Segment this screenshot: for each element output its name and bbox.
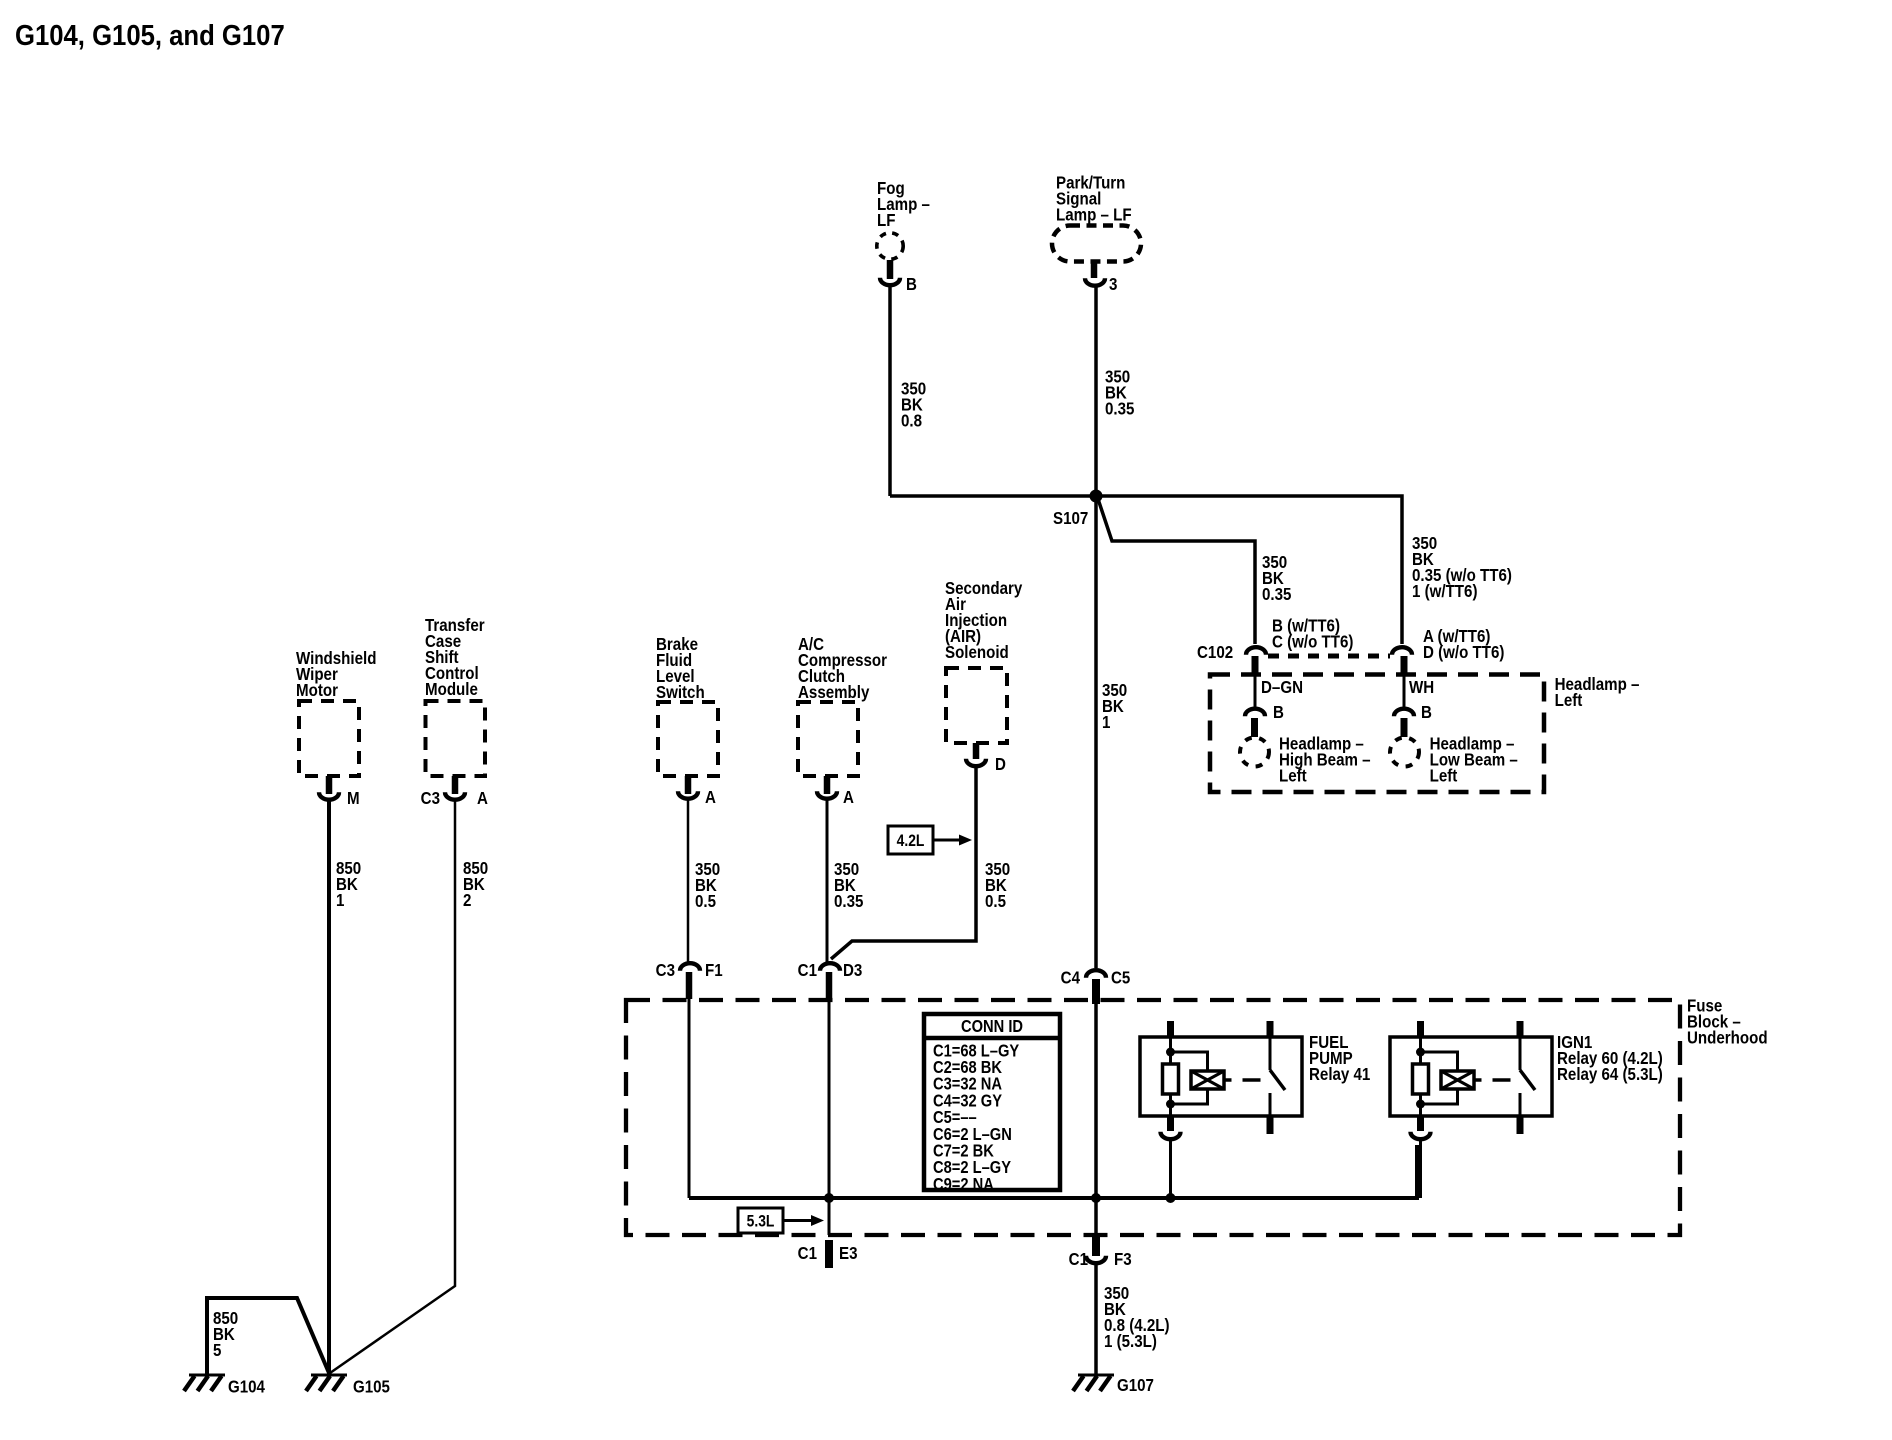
fog lamp label xyxy=(877,178,930,231)
svg-text:G104: G104 xyxy=(228,1376,266,1397)
wire fog lamp to S107 xyxy=(890,494,1096,498)
relay IGN1 label xyxy=(1557,1032,1663,1085)
connector B low beam xyxy=(1394,709,1414,716)
connector C4-C5 xyxy=(1086,970,1106,977)
air solenoid pin D xyxy=(973,743,980,759)
wire label 350 BK 1 xyxy=(1102,680,1127,733)
pin C5 xyxy=(1092,979,1100,1004)
pin label D3 xyxy=(843,960,862,981)
park/turn signal lamp label xyxy=(1056,172,1132,225)
svg-text:C9=2 NA: C9=2 NA xyxy=(933,1175,994,1194)
ground label G107 xyxy=(1117,1375,1154,1396)
park/turn signal lamp LF symbol xyxy=(1052,226,1141,262)
pin label C5 xyxy=(1111,967,1130,988)
wire 350 BK 0.35 a/c xyxy=(826,801,829,965)
connector B high beam xyxy=(1245,709,1265,716)
pin C102 left xyxy=(1252,656,1259,675)
svg-text:D: D xyxy=(995,754,1006,775)
connector cup A a/c xyxy=(817,791,837,799)
relay FUEL PUMP Relay 41 xyxy=(1140,1021,1302,1134)
fog lamp LF bulb xyxy=(877,233,903,259)
pin low beam xyxy=(1401,718,1408,737)
connector cup A brake xyxy=(678,791,698,799)
connector C3-F1 xyxy=(680,963,700,970)
relay IGN1 output connector xyxy=(1411,1132,1431,1140)
connector C102 right half xyxy=(1392,647,1412,654)
headlamp low beam label xyxy=(1430,733,1518,786)
connector cup B fog lamp xyxy=(880,278,900,286)
wire D-GN xyxy=(1254,675,1257,707)
wire F1 to ground bus xyxy=(688,999,691,1198)
park/turn lamp pin 3 xyxy=(1091,261,1098,278)
ground G105 xyxy=(306,1375,347,1391)
svg-text:A: A xyxy=(477,788,488,809)
connector cup 3 park/turn xyxy=(1085,278,1105,286)
wire fog lamp 350 BK 0.8 xyxy=(888,287,892,496)
svg-text:D3: D3 xyxy=(843,960,862,981)
ground label G104 xyxy=(228,1376,266,1397)
headlamp assembly label xyxy=(1555,674,1640,711)
svg-text:S107: S107 xyxy=(1053,508,1088,529)
relay FUEL PUMP Relay 41 label xyxy=(1309,1032,1370,1085)
wire label 850 BK 2 xyxy=(463,858,488,911)
pin label A a/c xyxy=(843,787,854,808)
pin label F1 xyxy=(705,960,723,981)
svg-text:F1: F1 xyxy=(705,960,723,981)
ground label G105 xyxy=(353,1376,390,1397)
splice label S107 xyxy=(1053,508,1088,529)
svg-text:3: 3 xyxy=(1109,274,1117,295)
air solenoid box xyxy=(946,668,1007,743)
title G104, G105, and G107 xyxy=(15,19,285,52)
wiper pin M xyxy=(326,776,333,794)
svg-text:M: M xyxy=(347,788,360,809)
pin label B high beam xyxy=(1273,702,1284,723)
wire S107 to left headlamp drop xyxy=(1098,499,1255,644)
wire 350 BK to G107 xyxy=(1094,1265,1098,1375)
connector cup D air xyxy=(966,759,986,767)
pin label B low beam xyxy=(1421,702,1432,723)
pin E3 xyxy=(825,1240,833,1268)
transfer case pin A xyxy=(452,776,459,794)
pin D3 xyxy=(826,972,833,999)
svg-text:B: B xyxy=(906,274,917,295)
wire 850 BK 5 xyxy=(207,1298,329,1374)
wire label 850 BK 1 xyxy=(336,858,361,911)
pin label B xyxy=(906,274,917,295)
fuse block label xyxy=(1687,995,1768,1048)
ground G104 xyxy=(184,1375,225,1391)
ground G107 xyxy=(1073,1375,1114,1391)
transfer case module label xyxy=(425,615,485,700)
pin label F3 xyxy=(1114,1249,1132,1270)
svg-text:G104, G105, and G107: G104, G105, and G107 xyxy=(15,19,285,52)
pin F1 xyxy=(686,972,693,999)
wire label 350 BK 0.5 brake xyxy=(695,859,720,912)
svg-text:C1: C1 xyxy=(798,960,817,981)
wire label 350 BK 0.35 left drop xyxy=(1262,552,1291,605)
junction C5 wire / bus xyxy=(1091,1193,1101,1203)
svg-text:E3: E3 xyxy=(839,1243,857,1264)
svg-text:C4: C4 xyxy=(1061,967,1081,988)
svg-text:B: B xyxy=(1421,702,1432,723)
connector cup F3 xyxy=(1086,1256,1106,1264)
pin high beam xyxy=(1251,718,1258,737)
wire label D-GN xyxy=(1261,677,1303,698)
connector label C4 xyxy=(1061,967,1081,988)
svg-text:WH: WH xyxy=(1409,677,1434,698)
relay IGN1 xyxy=(1390,1021,1552,1134)
svg-text:C1: C1 xyxy=(798,1243,817,1264)
callout 4.2L xyxy=(888,826,972,854)
svg-text:CONN ID: CONN ID xyxy=(961,1017,1023,1036)
windshield wiper motor label xyxy=(296,648,376,701)
windshield wiper motor box xyxy=(299,701,359,776)
connector label C102 xyxy=(1197,642,1233,663)
svg-text:B: B xyxy=(1273,702,1284,723)
brake switch pin A xyxy=(685,776,692,794)
pin label B/C left xyxy=(1272,615,1353,652)
pin label A brake xyxy=(705,787,716,808)
pin label A/D right xyxy=(1423,626,1504,663)
wire D3 through fuse block xyxy=(828,999,831,1235)
wire label 350 BK 0.8/1 xyxy=(1104,1283,1170,1352)
connector label C1 fuse xyxy=(798,960,817,981)
CONN ID table xyxy=(924,1014,1060,1194)
connector C1-D3 xyxy=(820,963,840,970)
pin label D air xyxy=(995,754,1006,775)
svg-text:4.2L: 4.2L xyxy=(897,832,925,850)
svg-text:D–GN: D–GN xyxy=(1261,677,1303,698)
fog lamp pin B xyxy=(887,260,894,279)
wire label 850 BK 5 xyxy=(213,1308,238,1361)
headlamp high beam label xyxy=(1279,733,1371,786)
brake fluid level switch box xyxy=(658,702,718,776)
fuse block underhood box xyxy=(626,1000,1680,1235)
wire S107 to right headlamp drop xyxy=(1096,496,1402,644)
relay FUEL PUMP Relay 41 wire to ground bus xyxy=(1169,1141,1172,1199)
svg-text:C5: C5 xyxy=(1111,967,1130,988)
a/c pin A xyxy=(824,776,831,794)
svg-text:G107: G107 xyxy=(1117,1375,1154,1396)
pin F3 xyxy=(1092,1235,1100,1256)
wire park/turn 350 BK 0.35 xyxy=(1094,288,1098,969)
connector label C3 xyxy=(421,788,440,809)
callout 5.3L xyxy=(738,1208,824,1233)
wire label 350 BK 0.5 air xyxy=(985,859,1010,912)
svg-text:C3: C3 xyxy=(421,788,440,809)
svg-text:A: A xyxy=(843,787,854,808)
svg-text:5.3L: 5.3L xyxy=(747,1212,775,1230)
headlamp low beam bulb xyxy=(1390,738,1419,767)
secondary air injection solenoid label xyxy=(945,578,1023,663)
junction D3 wire / bus xyxy=(824,1193,834,1203)
connector C102 dashed line xyxy=(1268,654,1390,659)
pin label M xyxy=(347,788,360,809)
ground bus inside fuse block xyxy=(689,1145,1417,1198)
wire label WH xyxy=(1409,677,1434,698)
svg-text:C102: C102 xyxy=(1197,642,1233,663)
pin C102 right xyxy=(1401,656,1408,675)
pin label E3 xyxy=(839,1243,857,1264)
headlamp high beam bulb xyxy=(1240,738,1269,767)
transfer case module box xyxy=(426,701,486,776)
wire label 350 BK 0.35 right drop xyxy=(1412,533,1512,602)
connector cup C3-A xyxy=(445,792,465,800)
wire label 350 BK 0.8 xyxy=(901,378,926,431)
svg-text:A: A xyxy=(705,787,716,808)
wire label 350 BK 0.35 xyxy=(1105,366,1134,419)
wire 850 BK 1 xyxy=(327,802,331,1375)
relay FUEL PUMP Relay 41 output connector xyxy=(1161,1132,1181,1140)
headlamp left assembly box xyxy=(1210,675,1544,793)
wire 850 BK 2 xyxy=(330,802,455,1374)
connector C102 left half xyxy=(1246,647,1266,654)
connector label C1 F3 xyxy=(1069,1249,1088,1270)
a/c compressor clutch label xyxy=(798,634,887,703)
wire 350 BK 0.5 air xyxy=(831,768,976,959)
svg-text:G105: G105 xyxy=(353,1376,390,1397)
relay IGN1 wire to ground bus xyxy=(1419,1141,1422,1199)
connector label C1 E3 xyxy=(798,1243,817,1264)
connector cup M xyxy=(319,792,339,800)
wire label 350 BK 0.35 a/c xyxy=(834,859,863,912)
wire 350 BK 0.5 brake xyxy=(687,801,690,965)
connector label C3 fuse xyxy=(656,960,675,981)
brake fluid level switch label xyxy=(656,634,705,703)
svg-text:F3: F3 xyxy=(1114,1249,1132,1270)
wire WH xyxy=(1403,675,1406,707)
svg-text:C3: C3 xyxy=(656,960,675,981)
wire C5 through fuse block xyxy=(1094,1004,1098,1235)
pin label 3 xyxy=(1109,274,1117,295)
junction fuel pump wire / bus xyxy=(1166,1193,1176,1203)
a/c compressor clutch box xyxy=(798,702,858,776)
pin label A transfer xyxy=(477,788,488,809)
splice S107 xyxy=(1090,490,1103,503)
